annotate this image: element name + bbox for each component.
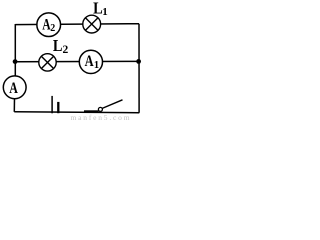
svg-text:2: 2 — [63, 44, 69, 56]
svg-text:1: 1 — [94, 60, 99, 71]
svg-text:L: L — [53, 36, 63, 55]
svg-text:2: 2 — [50, 23, 55, 34]
svg-text:L: L — [93, 0, 103, 18]
svg-text:A: A — [9, 80, 18, 97]
svg-text:1: 1 — [102, 6, 108, 18]
svg-text:manfen5.com: manfen5.com — [71, 113, 132, 122]
svg-text:A: A — [85, 53, 94, 70]
